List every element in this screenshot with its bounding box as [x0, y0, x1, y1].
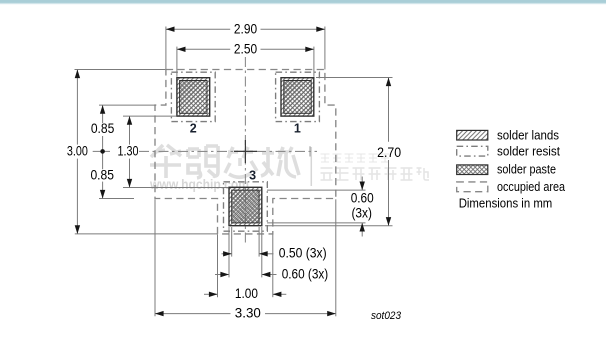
- svg-text:1.00: 1.00: [235, 286, 258, 301]
- dimension 0.50 (3x) bottom: [222, 253, 274, 255]
- svg-text:0.60 (3x): 0.60 (3x): [282, 266, 329, 281]
- svg-text:solder paste: solder paste: [497, 163, 556, 177]
- svg-text:3.30: 3.30: [235, 306, 261, 321]
- solder resist pad 3: [224, 182, 268, 231]
- solder paste pad 2: [180, 81, 207, 114]
- dimension 2.50: [177, 47, 314, 77]
- extension lines for 3.30: [155, 199, 336, 316]
- svg-text:solder resist: solder resist: [497, 144, 560, 158]
- svg-text:sot023: sot023: [371, 310, 402, 322]
- extension lines below pad 3 (occupied tab edges): [218, 235, 273, 298]
- legend solder resist swatch: [457, 146, 488, 156]
- dimension 0.60 right: [267, 177, 366, 237]
- svg-text:2.90: 2.90: [234, 21, 257, 36]
- watermark big text 华强芯城: [150, 145, 299, 178]
- occupied area outline: [155, 70, 336, 234]
- svg-text:2: 2: [190, 121, 197, 135]
- solder paste pad 3: [232, 190, 259, 223]
- dimension 2.90: [166, 27, 325, 70]
- center cross: [234, 140, 257, 163]
- dimension 0.60 (3x) bottom: [215, 274, 277, 276]
- legend solder paste swatch: [457, 165, 488, 175]
- dimension 1.00: [204, 293, 286, 295]
- dimension 1.30: [123, 116, 229, 187]
- svg-text:(3x): (3x): [351, 206, 372, 221]
- svg-text:1: 1: [294, 121, 301, 135]
- chain dot node: [100, 149, 105, 154]
- solder resist pad 2: [171, 72, 215, 121]
- svg-text:Dimensions in mm: Dimensions in mm: [459, 196, 553, 210]
- solder land pad 1: [281, 78, 314, 116]
- watermark right line2 元器件在线商城: [321, 168, 430, 180]
- dimension 2.70: [265, 78, 393, 226]
- dimension 3.30: [155, 313, 336, 315]
- legend solder lands swatch: [457, 130, 488, 140]
- watermark right line1 华强集团旗下: [321, 154, 390, 162]
- extension lines below pad 3 (land edges): [229, 227, 262, 277]
- svg-text:0.85: 0.85: [90, 167, 114, 182]
- vertical centerline: [244, 57, 246, 246]
- legend occupied area swatch: [457, 182, 488, 192]
- svg-text:0.60: 0.60: [351, 191, 374, 206]
- svg-text:0.50 (3x): 0.50 (3x): [279, 246, 327, 261]
- svg-text:1.30: 1.30: [118, 144, 139, 159]
- svg-text:2.70: 2.70: [377, 145, 401, 160]
- solder land pad 3: [229, 187, 262, 225]
- solder land pad 2: [177, 78, 210, 116]
- extension lines below pad 3 (paste edges): [232, 227, 259, 257]
- svg-text:occupied area: occupied area: [497, 180, 565, 194]
- svg-text:3: 3: [249, 169, 256, 183]
- dimension 3.00: [75, 70, 218, 234]
- centerline end tick: [309, 146, 311, 156]
- solder paste pad 1: [284, 81, 311, 114]
- watermark divider: [310, 147, 312, 186]
- svg-text:0.85: 0.85: [91, 121, 115, 136]
- solder resist pad 1: [276, 72, 320, 121]
- horizontal centerline: [93, 150, 317, 152]
- svg-text:solder lands: solder lands: [497, 128, 559, 142]
- svg-text:2.50: 2.50: [234, 42, 257, 57]
- top teal bar: [0, 0, 606, 5]
- dimension 0.85 chain: [99, 105, 155, 198]
- svg-text:3.00: 3.00: [67, 144, 88, 159]
